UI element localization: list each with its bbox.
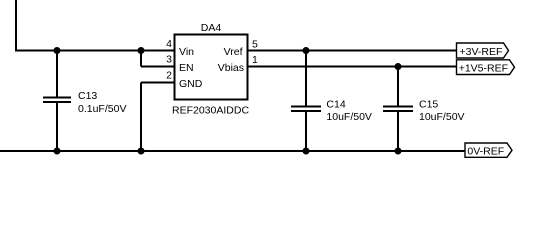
svg-text:4: 4 [166, 38, 172, 50]
svg-text:Vbias: Vbias [218, 62, 244, 74]
svg-text:C13: C13 [78, 90, 97, 102]
svg-text:GND: GND [179, 78, 203, 90]
svg-text:2: 2 [166, 69, 172, 81]
svg-text:+3V-REF: +3V-REF [460, 46, 503, 58]
svg-text:Vref: Vref [224, 46, 243, 58]
svg-text:3: 3 [166, 54, 172, 66]
svg-text:1: 1 [252, 54, 258, 66]
svg-text:Vin: Vin [179, 46, 194, 58]
svg-text:C14: C14 [326, 99, 345, 111]
svg-text:EN: EN [179, 62, 194, 74]
svg-text:10uF/50V: 10uF/50V [326, 111, 372, 123]
svg-text:DA4: DA4 [201, 22, 222, 34]
svg-text:5: 5 [252, 39, 258, 51]
svg-text:10uF/50V: 10uF/50V [419, 111, 465, 123]
svg-text:+1V5-REF: +1V5-REF [459, 62, 508, 74]
svg-text:0.1uF/50V: 0.1uF/50V [78, 103, 126, 115]
svg-text:REF2030AIDDC: REF2030AIDDC [172, 105, 249, 117]
svg-text:0V-REF: 0V-REF [467, 146, 504, 158]
svg-text:C15: C15 [419, 99, 438, 111]
